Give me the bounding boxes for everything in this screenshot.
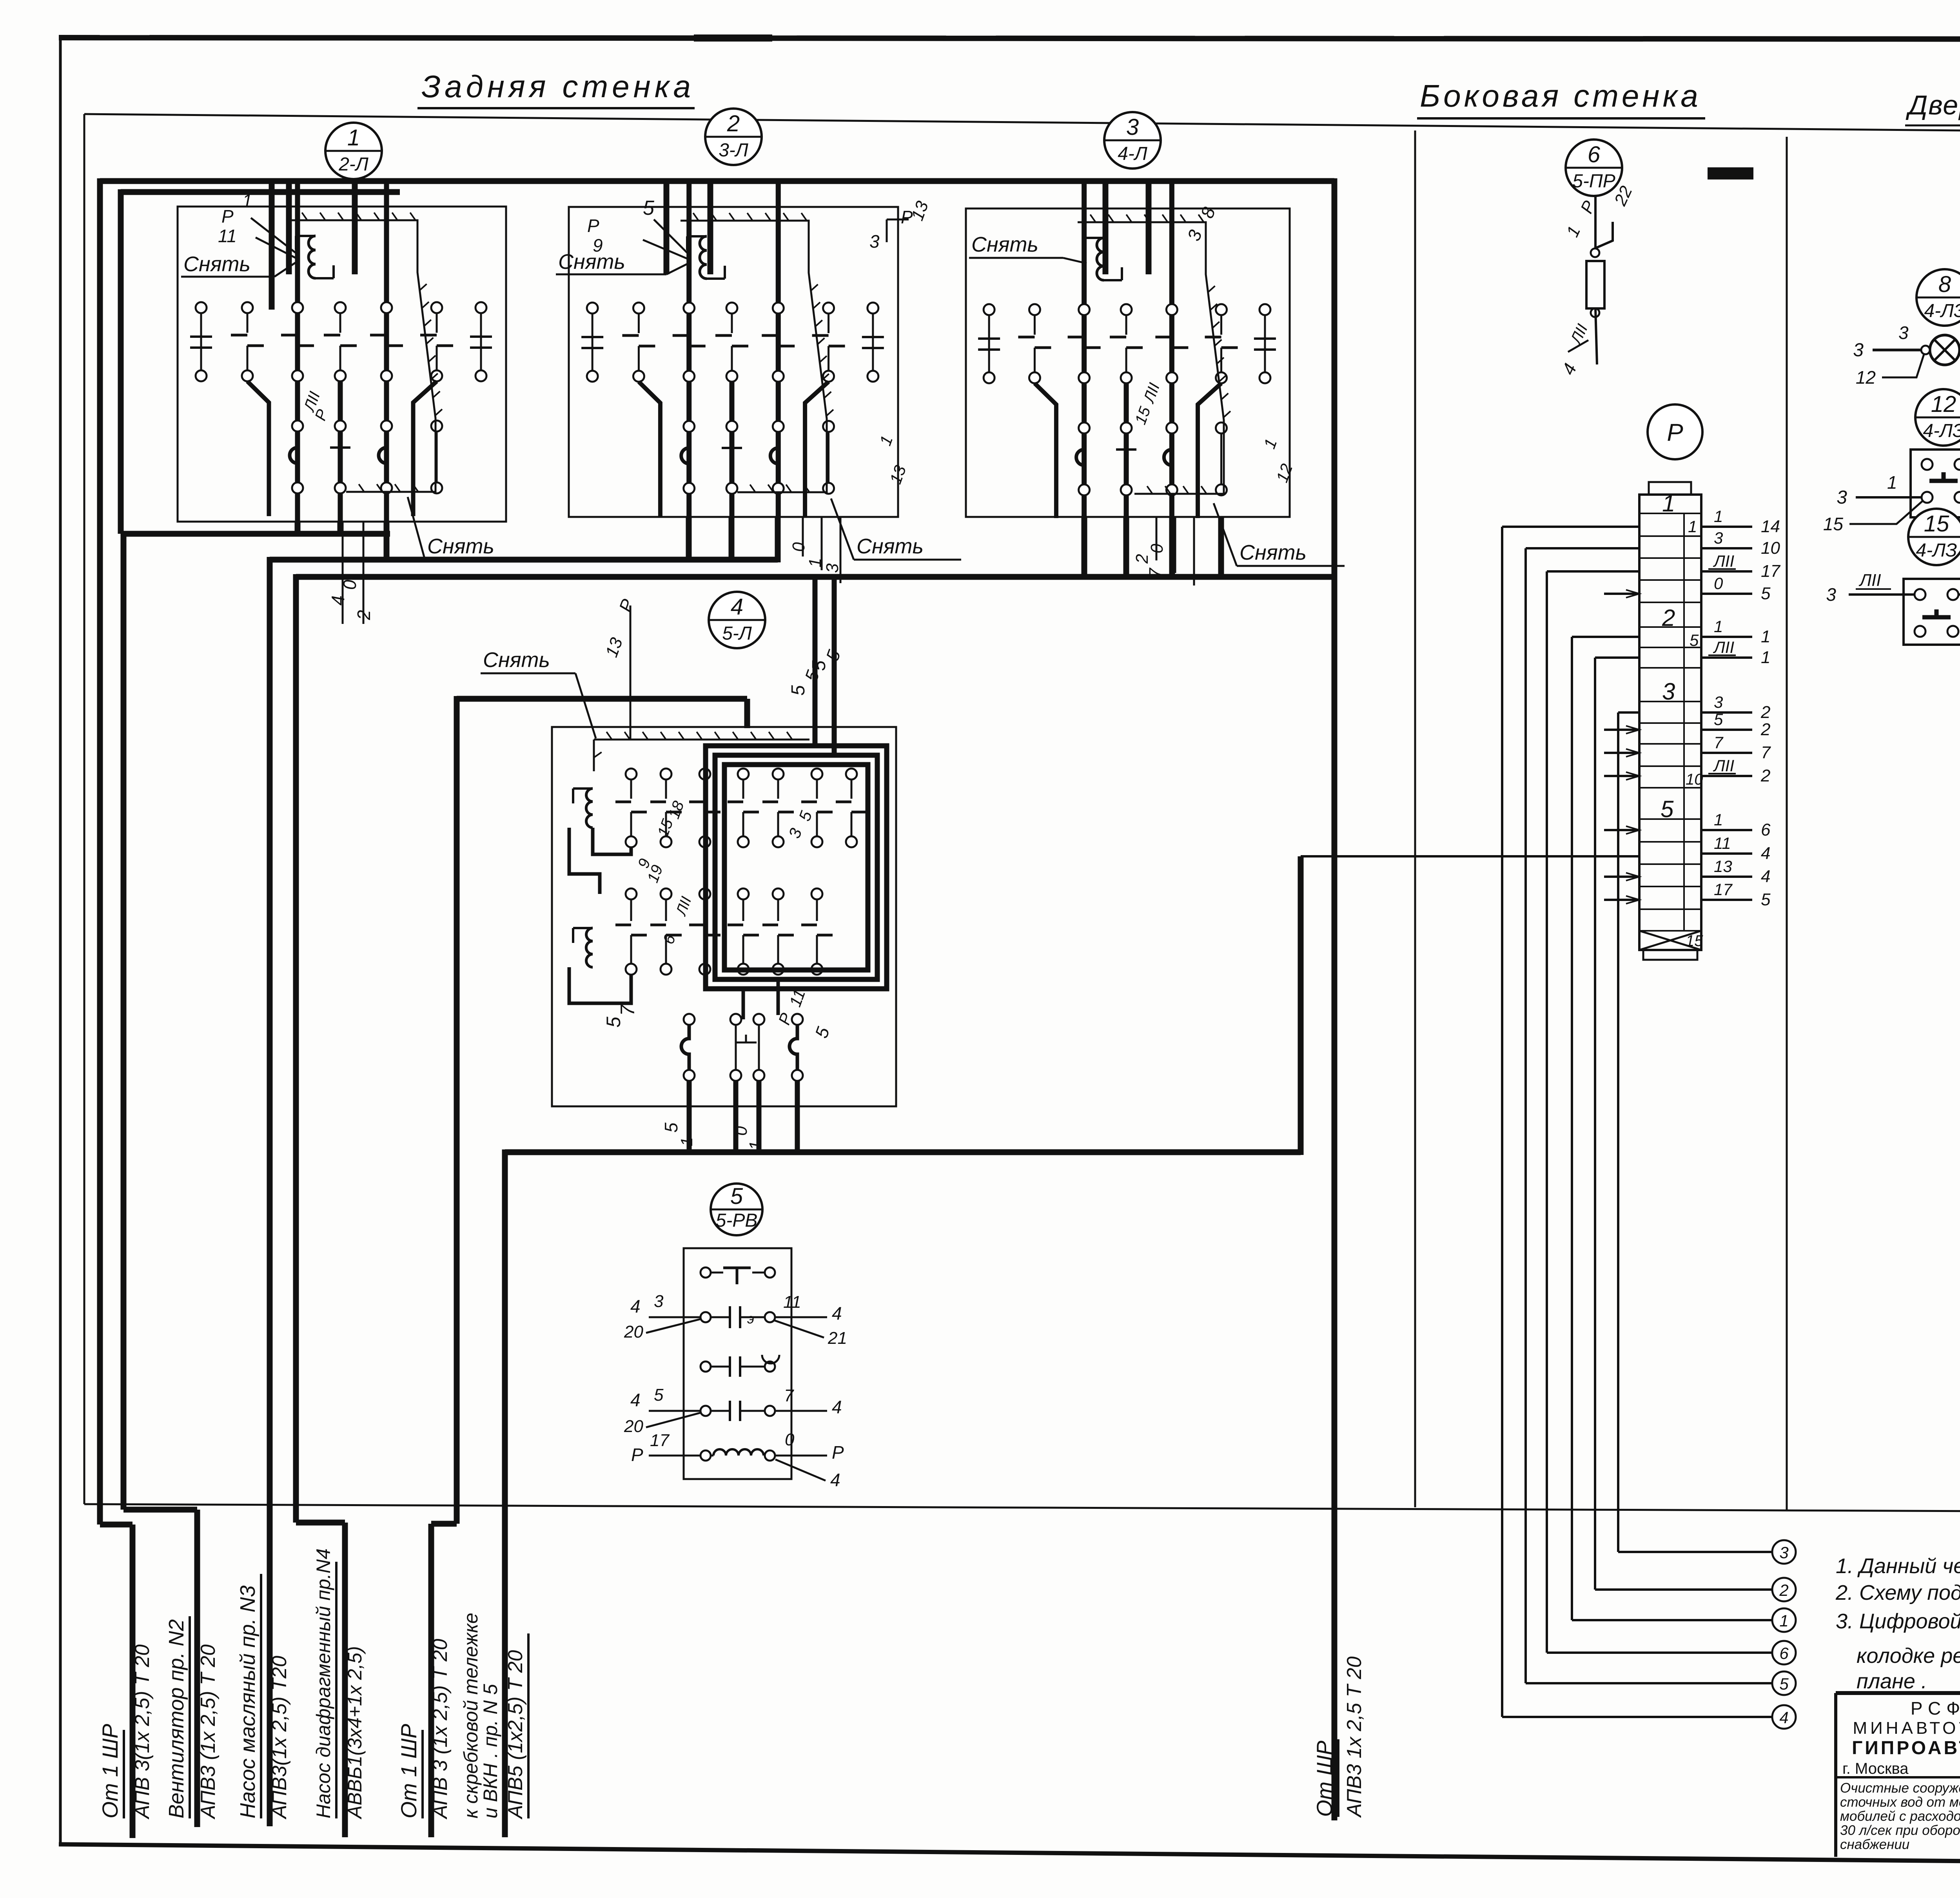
wire block2 bottom thin leads — [802, 517, 804, 557]
starter block 1 (2-L) — [325, 123, 382, 179]
node circle 4 — [1772, 1705, 1796, 1729]
svg-text:Снять: Снять — [971, 233, 1038, 256]
svg-text:12: 12 — [1931, 392, 1956, 417]
svg-text:5: 5 — [661, 1122, 681, 1133]
svg-text:17: 17 — [650, 1431, 670, 1450]
terminal lead ЛII-17 — [1701, 570, 1752, 573]
block4 contact grid tier2 — [626, 888, 637, 899]
svg-text:6: 6 — [1588, 142, 1601, 167]
contact t1 c4 2 — [773, 303, 784, 314]
block5 row2 timing contact — [701, 1312, 711, 1322]
svg-text:5: 5 — [1661, 796, 1674, 822]
wire block2 drops to bus1428 — [686, 517, 692, 562]
contact t1 c1 1 — [242, 302, 253, 313]
svg-text:Снять: Снять — [857, 535, 924, 558]
zone bottom line — [84, 1504, 1960, 1514]
svg-text:Насос масляный пр. N3: Насос масляный пр. N3 — [236, 1585, 260, 1818]
svg-text:1: 1 — [1688, 517, 1697, 536]
svg-text:6: 6 — [1779, 1644, 1789, 1662]
contact t2 c4 1 — [381, 421, 392, 431]
svg-text:ГИПРОАВТОТРАНС: ГИПРОАВТОТРАНС — [1852, 1738, 1960, 1758]
wire block1 drops to bus1362 — [295, 522, 301, 537]
wire thick verticals inside 3 — [1082, 183, 1087, 517]
svg-text:1: 1 — [1887, 472, 1897, 493]
coil 3 — [1097, 238, 1104, 280]
svg-text:Снять: Снять — [558, 250, 625, 274]
svg-text:Задняя стенка: Задняя стенка — [421, 69, 695, 104]
svg-text:4: 4 — [630, 1296, 641, 1316]
lamp tag 8 (4-LZ) — [1916, 269, 1960, 326]
hatched removal boundary 2 — [681, 221, 827, 492]
block5 row5 coil — [701, 1450, 711, 1461]
svg-text:0: 0 — [1714, 574, 1723, 593]
svg-text:г. Москва: г. Москва — [1842, 1760, 1909, 1777]
wire bus y1362 — [123, 531, 390, 537]
wire terminal vertical 2 — [1595, 656, 1639, 659]
svg-text:2: 2 — [1760, 720, 1770, 739]
svg-text:4: 4 — [328, 595, 348, 605]
svg-text:4: 4 — [1779, 1708, 1788, 1727]
svg-text:17: 17 — [1714, 880, 1733, 899]
svg-text:15: 15 — [1924, 511, 1949, 537]
svg-text:АПВ3 1х 2,5 Т 20: АПВ3 1х 2,5 Т 20 — [1343, 1657, 1366, 1818]
wire terminal vertical 1 — [1572, 636, 1639, 638]
contact t2 c5 1 — [431, 421, 442, 431]
svg-text:1: 1 — [1714, 617, 1723, 636]
svg-text:3: 3 — [1126, 114, 1139, 140]
contact t1 c4 1 — [381, 302, 392, 313]
svg-text:5: 5 — [1761, 890, 1771, 909]
wire terminal vertical 6 — [1547, 570, 1639, 573]
svg-text:1. Данный чертеж является з: 1. Данный чертеж является заданием завод… — [1836, 1554, 1960, 1578]
svg-text:4-ЛЗ: 4-ЛЗ — [1924, 301, 1960, 321]
contact t1 c6 3 — [1259, 304, 1270, 315]
wire thick verticals inside 2 — [686, 181, 691, 517]
svg-text:5-РВ: 5-РВ — [716, 1210, 758, 1231]
contact t2 c3 1 — [335, 421, 346, 431]
contact t1 c6 2 — [867, 303, 878, 314]
svg-text:2: 2 — [1779, 1581, 1788, 1599]
terminal lead ЛII-1 — [1701, 656, 1752, 659]
rear wall zone outline — [84, 114, 1960, 136]
svg-text:5: 5 — [1761, 584, 1771, 603]
wire thick verticals inside 1 — [295, 181, 300, 522]
svg-text:Р: Р — [221, 206, 234, 227]
wire bus y2940 — [505, 1149, 1301, 1155]
wire block3 top feeders — [1103, 184, 1109, 274]
svg-text:АПВ5 (1х2,5) Т 20: АПВ5 (1х2,5) Т 20 — [504, 1650, 527, 1820]
svg-text:1: 1 — [347, 125, 360, 150]
svg-text:7: 7 — [1761, 743, 1771, 762]
block4 top lead 13 R — [630, 605, 632, 740]
contact t1 c0 2 — [587, 303, 598, 314]
svg-text:1: 1 — [1714, 507, 1723, 526]
svg-text:5: 5 — [1779, 1675, 1789, 1693]
button tag 12 (4-LZ) — [1915, 389, 1960, 446]
lamp 8 — [1930, 335, 1960, 365]
terminal lead 17-5 — [1701, 899, 1752, 901]
svg-text:1: 1 — [1779, 1612, 1788, 1630]
svg-text:Очистные сооружения для: Очистные сооружения для — [1840, 1780, 1960, 1796]
svg-text:плане .: плане . — [1857, 1670, 1927, 1693]
svg-text:2-Л: 2-Л — [338, 154, 368, 175]
terminal lead 7-7 — [1701, 752, 1752, 754]
contact t2 c2 1 — [292, 421, 303, 431]
node circle 2 — [1772, 1578, 1796, 1601]
contact t1 c1 3 — [1029, 304, 1040, 315]
svg-text:2: 2 — [1662, 605, 1675, 631]
terminal lead 13-4 — [1701, 876, 1752, 878]
svg-text:ЛII: ЛII — [1713, 638, 1734, 656]
block4 coil upper — [586, 789, 593, 828]
svg-text:4: 4 — [832, 1303, 842, 1323]
hatched removal boundary 1 — [289, 220, 436, 492]
contact t2 c2 2 — [684, 421, 695, 432]
terminal strip body — [1639, 495, 1701, 950]
wire block1 top feeders — [269, 184, 275, 310]
svg-text:1: 1 — [1714, 810, 1723, 829]
contact t1 c5 1 — [431, 302, 442, 313]
svg-text:ЛII: ЛII — [1713, 756, 1734, 775]
svg-text:1: 1 — [677, 1137, 696, 1146]
svg-text:5: 5 — [730, 1184, 743, 1209]
svg-text:э: э — [747, 1311, 754, 1327]
wire cable 1 lower — [100, 1522, 132, 1528]
terminal strip inner column — [1683, 513, 1685, 931]
wire cable 4 lower — [296, 1520, 345, 1526]
coil 2 — [700, 236, 707, 279]
terminal strip dividers — [1639, 513, 1701, 514]
sheet border bottom — [59, 1844, 1960, 1867]
contact t1 c6 1 — [475, 302, 486, 313]
block5 row2 leads — [649, 1316, 701, 1318]
block5 row5 leads — [649, 1455, 701, 1457]
svg-text:4: 4 — [731, 594, 743, 620]
terminal lead 11-4 — [1701, 852, 1752, 855]
node circle 1 — [1772, 1608, 1796, 1632]
block4 contact grid tier1 — [626, 769, 637, 780]
svg-text:2: 2 — [727, 111, 740, 136]
svg-text:Р: Р — [587, 216, 599, 236]
svg-text:3. Цифровой индекс у названи: 3. Цифровой индекс у названия аппарата и… — [1836, 1610, 1960, 1633]
wire long horizontal to terminal strip — [1301, 855, 1639, 857]
svg-text:1: 1 — [746, 1141, 765, 1150]
svg-text:ЛII: ЛII — [1858, 571, 1881, 590]
block4 nested loop outer — [706, 746, 887, 989]
svg-text:5-Л: 5-Л — [722, 623, 752, 644]
svg-text:7: 7 — [784, 1386, 794, 1405]
svg-text:2: 2 — [1760, 766, 1770, 785]
svg-text:АПВ3 (1х 2,5) Т 20: АПВ3 (1х 2,5) Т 20 — [197, 1644, 220, 1820]
svg-text:колодке рейки зажимов соотв: колодке рейки зажимов соответствует номе… — [1857, 1644, 1960, 1668]
svg-text:5: 5 — [643, 197, 655, 219]
wire cable 1 riser — [97, 178, 103, 1525]
magnetic starter 3 outline — [966, 208, 1290, 517]
contact t2 c4 2 — [773, 421, 784, 432]
wire cable 6 riser — [502, 1149, 508, 1837]
svg-text:10: 10 — [1686, 771, 1703, 788]
svg-text:7: 7 — [1714, 733, 1724, 752]
contact t2 c3 3 — [1121, 422, 1132, 433]
svg-text:11: 11 — [783, 1293, 801, 1312]
node circle 3 — [1772, 1540, 1796, 1564]
block4 coil lower — [586, 928, 593, 967]
svg-text:3: 3 — [1837, 487, 1847, 508]
svg-text:АПВ 3(1х 2,5) Т 20: АПВ 3(1х 2,5) Т 20 — [131, 1644, 154, 1820]
svg-text:1: 1 — [1761, 648, 1770, 667]
svg-text:6: 6 — [1761, 820, 1771, 839]
svg-text:и ВКН . пр. N 5: и ВКН . пр. N 5 — [479, 1684, 501, 1818]
magnetic starter 1 outline — [178, 207, 506, 522]
contact t1 c5 3 — [1216, 304, 1227, 315]
wire dogleg right 1 — [413, 381, 437, 516]
svg-text:12: 12 — [1856, 367, 1876, 388]
svg-text:10: 10 — [1761, 538, 1780, 558]
svg-text:5: 5 — [809, 660, 829, 671]
svg-text:АВВБ1(3х4+1х 2,5): АВВБ1(3х4+1х 2,5) — [344, 1646, 366, 1820]
contact t1 c2 3 — [1079, 304, 1090, 315]
block4 left step wires — [569, 828, 600, 894]
svg-text:4: 4 — [832, 1397, 842, 1417]
svg-text:3: 3 — [869, 231, 880, 252]
svg-text:к скребковой тележке: к скребковой тележке — [460, 1613, 482, 1818]
svg-text:4: 4 — [1761, 844, 1770, 863]
contact t1 c4 3 — [1166, 304, 1177, 315]
contact t1 c2 2 — [684, 303, 695, 314]
fuse tag 6 (5-PR) — [1566, 140, 1622, 196]
wire dogleg right 2 — [805, 382, 829, 517]
block5 row3 contact — [701, 1361, 711, 1372]
svg-text:2. Схему подключения см. лис: 2. Схему подключения см. лист ЭЛ-2 . — [1835, 1581, 1960, 1604]
wire dogleg right 3 — [1198, 383, 1221, 518]
svg-text:Снять: Снять — [1240, 541, 1307, 564]
contact t2 c5 3 — [1216, 422, 1227, 433]
starter block 4 (5-L) — [709, 592, 765, 648]
svg-text:3: 3 — [1853, 340, 1864, 361]
svg-text:4-ЛЗ: 4-ЛЗ — [1923, 421, 1960, 441]
button 15 — [1904, 579, 1960, 645]
sheet border left — [59, 38, 62, 1844]
wire bus y1472 — [296, 574, 1334, 580]
wire terminal vertical 5 — [1526, 547, 1639, 549]
terminal lead 3-2 — [1701, 711, 1752, 714]
title block frame — [1836, 1691, 1960, 1695]
svg-text:4-Л: 4-Л — [1118, 143, 1147, 164]
svg-text:5-ПР: 5-ПР — [1572, 171, 1615, 192]
coil 1 — [309, 236, 316, 278]
wire dogleg left 2 — [639, 382, 660, 517]
svg-text:Снять: Снять — [183, 252, 250, 276]
svg-text:Р: Р — [631, 1445, 643, 1465]
wire block3 drops to bus1472 — [1082, 517, 1087, 580]
fuse 5-PR — [1594, 196, 1597, 248]
svg-text:3-Л: 3-Л — [719, 140, 748, 161]
svg-text:Р: Р — [1667, 419, 1683, 446]
svg-text:0: 0 — [731, 1126, 751, 1136]
wire terminal vertical 4 — [1502, 526, 1639, 528]
magnetic starter 2 outline — [569, 207, 898, 517]
wire cable 4 riser — [293, 574, 299, 1523]
block4 nested loop middle — [715, 755, 877, 979]
svg-text:Снять: Снять — [427, 535, 494, 558]
svg-text:14: 14 — [1761, 517, 1780, 536]
svg-text:2: 2 — [1132, 554, 1152, 564]
wire OT ShR riser — [1332, 178, 1338, 1820]
wire dogleg left 3 — [1034, 383, 1056, 518]
terminal lead 5-2 — [1701, 729, 1752, 731]
hatched removal boundary 3 — [1078, 222, 1224, 494]
svg-text:Насос диафрагменный пр.N4: Насос диафрагменный пр.N4 — [312, 1548, 334, 1818]
contact t1 c3 1 — [335, 302, 346, 313]
svg-text:4: 4 — [630, 1390, 641, 1410]
svg-text:17: 17 — [1761, 562, 1780, 581]
svg-text:0: 0 — [785, 1430, 795, 1449]
button tag 15 (4-LZ) — [1908, 509, 1960, 565]
top border ink blob — [694, 34, 772, 42]
relay tag P — [1648, 404, 1702, 459]
svg-text:ЛII: ЛII — [1713, 552, 1734, 570]
block4 nested loop inner — [724, 765, 868, 970]
svg-text:Вентилятор пр. N2: Вентилятор пр. N2 — [165, 1619, 188, 1818]
svg-text:3: 3 — [1779, 1543, 1788, 1562]
wire cable 2 riser — [121, 531, 127, 1510]
wire bus y490 block1 feeder — [121, 189, 400, 195]
svg-text:АПВ3(1х 2,5) Т20: АПВ3(1х 2,5) Т20 — [268, 1656, 291, 1820]
svg-text:3: 3 — [1898, 323, 1909, 343]
wire top bus to ShR — [100, 178, 1334, 184]
terminal strip X box — [1639, 931, 1701, 950]
svg-text:5: 5 — [1690, 631, 1699, 649]
svg-text:Р: Р — [832, 1442, 844, 1463]
contact t2 c4 3 — [1166, 422, 1177, 433]
terminal lead 1-1 — [1701, 636, 1752, 638]
svg-text:АПВ 3 (1х 2,5) Т 20: АПВ 3 (1х 2,5) Т 20 — [429, 1639, 452, 1820]
svg-text:11: 11 — [1714, 834, 1731, 852]
wire block1 drops to bus1428 — [384, 522, 390, 562]
svg-text:8: 8 — [1938, 272, 1951, 297]
contact t2 c2 3 — [1079, 422, 1090, 433]
contact t1 c3 2 — [726, 303, 737, 314]
svg-text:11: 11 — [218, 226, 237, 246]
svg-text:3: 3 — [1662, 678, 1675, 705]
side wall zone divider — [1414, 131, 1416, 1507]
contact t1 c0 3 — [984, 304, 995, 315]
block5 row1 contact — [701, 1267, 711, 1278]
svg-text:15: 15 — [1823, 514, 1844, 534]
contact t1 c5 2 — [823, 303, 834, 314]
svg-text:мобилей с расходом 10,20 и: мобилей с расходом 10,20 и — [1840, 1809, 1960, 1824]
svg-text:От 1 ШР: От 1 ШР — [98, 1724, 122, 1818]
wire cable 5 riser — [454, 696, 460, 1524]
svg-text:5: 5 — [1714, 710, 1723, 729]
svg-text:4: 4 — [830, 1470, 840, 1490]
wire block1 bottom thin leads — [342, 522, 344, 624]
button 12 — [1911, 450, 1960, 517]
svg-text:3: 3 — [654, 1292, 664, 1311]
svg-text:Дверца (вид со стороны монтажа: Дверца (вид со стороны монтажа) — [1906, 90, 1960, 120]
contact t1 c1 2 — [633, 303, 644, 314]
terminal lead 1-14 — [1701, 526, 1752, 528]
wire cable 5 lower — [431, 1521, 457, 1527]
svg-text:13: 13 — [1714, 857, 1732, 876]
sheet border top — [59, 38, 1960, 40]
block4 bottom leads — [687, 1081, 692, 1152]
relay block 5 (5-RV) — [711, 1184, 762, 1235]
terminal strip footer — [1643, 950, 1697, 960]
svg-text:7: 7 — [617, 1004, 639, 1016]
svg-text:3: 3 — [1826, 584, 1836, 605]
svg-text:РСФСР: РСФСР — [1911, 1698, 1960, 1719]
svg-text:1: 1 — [1761, 627, 1770, 646]
svg-text:5: 5 — [603, 1017, 624, 1028]
svg-text:От 1 ШР: От 1 ШР — [396, 1724, 421, 1818]
svg-text:5: 5 — [654, 1385, 664, 1405]
svg-text:3: 3 — [1714, 693, 1723, 711]
svg-text:3: 3 — [823, 563, 842, 573]
terminal lead 3-10 — [1701, 547, 1752, 549]
block4 lower contacts — [684, 1014, 695, 1025]
wire block2 top feeders — [664, 184, 670, 274]
svg-text:0: 0 — [789, 542, 808, 552]
svg-text:30 л/сек при оборотном водо: 30 л/сек при оборотном водо- — [1840, 1823, 1960, 1838]
wire bus y1783 to block4 — [457, 696, 747, 702]
node circle 5 — [1772, 1671, 1796, 1695]
svg-text:4: 4 — [1761, 867, 1770, 886]
block4 hatch top — [594, 739, 809, 741]
svg-text:снабжении: снабжении — [1840, 1837, 1909, 1852]
wire block3 bottom thin leads — [1156, 517, 1158, 560]
svg-text:20: 20 — [624, 1417, 643, 1436]
contact t1 c2 1 — [292, 302, 303, 313]
svg-text:Боковая стенка: Боковая стенка — [1420, 78, 1701, 113]
svg-text:МИНАВТОТРАНС: МИНАВТОТРАНС — [1853, 1719, 1960, 1738]
wire riser to terminal row 11-4 — [1298, 856, 1304, 1155]
contact t1 c0 1 — [196, 302, 207, 313]
starter block 3 (4-L) — [1104, 112, 1161, 169]
svg-text:20: 20 — [624, 1322, 643, 1341]
wire bus y1428 — [270, 557, 778, 563]
svg-text:Снять: Снять — [483, 648, 550, 672]
block5 row4 leads — [649, 1410, 701, 1412]
svg-text:4-ЛЗ: 4-ЛЗ — [1916, 540, 1957, 561]
wire dogleg left 1 — [247, 381, 269, 516]
block4 top leads 5 5 — [813, 577, 818, 746]
svg-text:3: 3 — [1714, 529, 1723, 547]
block5 row4 contact — [701, 1406, 711, 1416]
svg-text:5: 5 — [788, 685, 809, 696]
terminal lead ЛII-2 — [1701, 775, 1752, 777]
contact t1 c3 3 — [1121, 304, 1132, 315]
terminal lead 0-5 — [1701, 593, 1752, 595]
terminal lead 1-6 — [1701, 829, 1752, 831]
door zone divider — [1786, 137, 1788, 1510]
svg-text:1: 1 — [1662, 490, 1675, 517]
contact t2 c3 2 — [726, 421, 737, 432]
contact t2 c5 2 — [823, 421, 834, 432]
svg-text:2: 2 — [1760, 703, 1770, 722]
black mark — [1708, 167, 1753, 179]
wire cable 2 lower — [123, 1507, 197, 1513]
svg-text:21: 21 — [828, 1329, 847, 1348]
starter block 2 (3-L) — [705, 109, 762, 165]
block4 nested loop leads — [742, 989, 745, 1019]
terminal stub wires — [1604, 593, 1639, 595]
lamp leads — [1873, 349, 1921, 352]
wire terminal vertical 3 — [1618, 711, 1639, 714]
svg-text:От ШР: От ШР — [1312, 1740, 1337, 1817]
svg-text:сточных вод от мойки авто: сточных вод от мойки авто — [1840, 1795, 1960, 1810]
terminal strip cap — [1649, 482, 1691, 495]
